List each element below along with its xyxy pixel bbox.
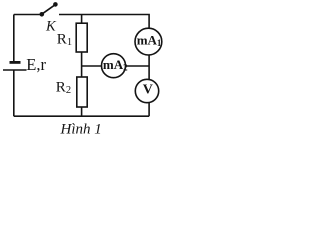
voltmeter V circle — [135, 79, 158, 102]
wire right middle (mA1 to V) — [148, 55, 150, 79]
ammeter mA2 circle — [102, 54, 126, 78]
svg-text:R2: R2 — [56, 79, 71, 96]
wire mA2 branch right — [126, 65, 150, 67]
switch K — [40, 2, 58, 17]
resistor R1 — [76, 23, 87, 52]
resistor R2 — [77, 77, 87, 107]
svg-text:mA1: mA1 — [137, 32, 162, 48]
wire middle branch bottom — [81, 107, 83, 116]
svg-text:V: V — [143, 82, 153, 97]
wire left lower (battery to bottom) — [13, 70, 15, 116]
svg-text:E,r: E,r — [26, 55, 46, 74]
battery E,r — [3, 62, 27, 70]
svg-text:Hình 1: Hình 1 — [60, 121, 102, 137]
ammeter mA1 circle — [135, 28, 162, 55]
svg-text:K: K — [45, 19, 57, 35]
wire right lower (V to bottom) — [148, 103, 150, 117]
wire mA2 branch left — [82, 65, 102, 67]
svg-text:R1: R1 — [57, 31, 72, 48]
wire top-left segment — [14, 14, 40, 16]
wire left upper (to battery) — [13, 15, 15, 63]
wire middle branch top — [81, 15, 83, 24]
wire bottom — [14, 115, 149, 117]
wire middle (R1 to R2, junction at node) — [81, 52, 83, 77]
wire top-right segment — [59, 15, 149, 29]
